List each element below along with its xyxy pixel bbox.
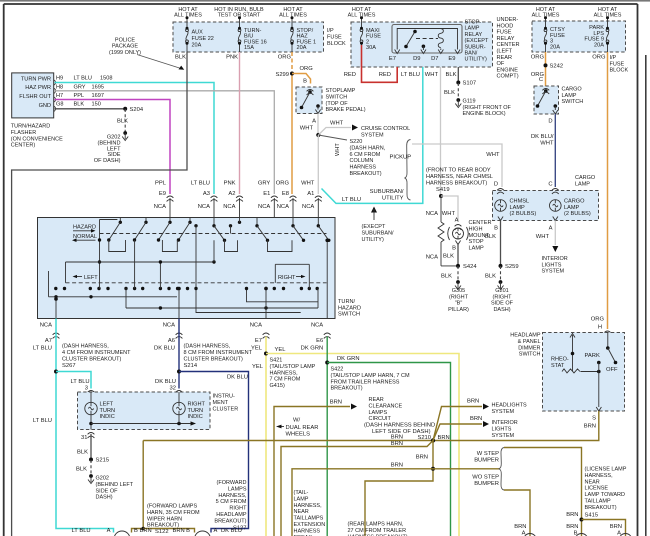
wire LT BLU relay D9 down xyxy=(322,67,423,203)
svg-text:BLK: BLK xyxy=(117,119,128,125)
svg-text:NCA: NCA xyxy=(277,204,289,210)
svg-text:PARK: PARK xyxy=(585,353,600,359)
wire WHT branch to chmsl D xyxy=(412,144,502,187)
svg-text:BRN: BRN xyxy=(330,400,342,406)
svg-text:RED: RED xyxy=(379,72,391,78)
wire DK BLU A6 to S214 to pin 32 xyxy=(178,319,180,389)
label POLICE PACKAGE xyxy=(109,38,141,56)
dimmer rheostat branch xyxy=(562,334,601,374)
svg-text:TAILLAMPS: TAILLAMPS xyxy=(294,516,324,522)
svg-text:LT BLU: LT BLU xyxy=(72,528,91,534)
svg-text:FLASHER: FLASHER xyxy=(11,130,36,136)
svg-text:BRN: BRN xyxy=(438,435,450,441)
label TURN/HAZARD SWITCH xyxy=(338,299,361,318)
svg-text:HARNESS BREAKOUT): HARNESS BREAKOUT) xyxy=(426,180,487,186)
svg-text:POLICE: POLICE xyxy=(115,38,136,44)
svg-text:HEADLIGHTS: HEADLIGHTS xyxy=(492,403,527,409)
wire WHT cargo lamp to interior lights xyxy=(552,221,558,253)
switch bus 3 xyxy=(49,271,178,298)
label INSTRUMENT CLUSTER xyxy=(213,394,239,413)
label SUBURBAN/UTILITY xyxy=(370,189,404,202)
svg-text:SYSTEM: SYSTEM xyxy=(361,132,384,138)
pin E7 (YEL) xyxy=(250,323,270,352)
label I/P FUSE BLOCK xyxy=(327,28,346,47)
svg-text:TURN: TURN xyxy=(100,408,116,414)
label BLK (pin31) xyxy=(77,450,88,456)
svg-text:NCA: NCA xyxy=(223,204,235,210)
svg-text:LICENSE: LICENSE xyxy=(585,486,609,492)
svg-text:DASH): DASH) xyxy=(493,307,510,313)
svg-text:BRN: BRN xyxy=(416,455,428,461)
label HOT AT ALL TIMES (maxi) xyxy=(348,7,376,19)
pin E8 (ORG) xyxy=(276,181,297,218)
svg-text:CENTER): CENTER) xyxy=(11,143,36,149)
svg-text:BLK: BLK xyxy=(446,72,457,78)
svg-text:S424: S424 xyxy=(463,264,477,270)
svg-text:TAILLAMP: TAILLAMP xyxy=(585,499,612,505)
label W STEP BUMPER xyxy=(474,451,499,464)
ground G202 (top) xyxy=(94,131,128,164)
svg-text:BLOCK: BLOCK xyxy=(327,41,346,47)
svg-text:150: 150 xyxy=(92,102,101,108)
pin A7 (LT BLU) xyxy=(33,323,60,352)
label BRN B (taillamp) xyxy=(566,524,578,536)
svg-text:3: 3 xyxy=(85,386,88,392)
svg-text:NCA: NCA xyxy=(311,323,323,329)
svg-text:CENTER: CENTER xyxy=(497,42,520,48)
svg-text:A: A xyxy=(549,226,553,232)
splice S267 xyxy=(54,370,58,374)
switch bus 8 xyxy=(100,220,231,234)
wire BRN S210 down to bumper line xyxy=(365,441,435,536)
svg-text:LEFT SIDE OF DASH): LEFT SIDE OF DASH) xyxy=(372,429,431,435)
pin A1 (WHT) xyxy=(301,181,322,218)
svg-text:S242: S242 xyxy=(550,64,564,70)
svg-text:(RIGHT: (RIGHT xyxy=(493,294,513,300)
svg-text:CLUSTER: CLUSTER xyxy=(213,406,239,412)
svg-text:HARNESS,: HARNESS, xyxy=(270,370,299,376)
label STOP LAMP RELAY xyxy=(465,20,489,63)
svg-text:1697: 1697 xyxy=(92,93,104,99)
stoplamp switch box xyxy=(296,87,322,114)
svg-text:STOP-: STOP- xyxy=(465,20,482,26)
svg-text:E9: E9 xyxy=(159,191,166,197)
lamp LEFT TURN INDIC xyxy=(85,392,115,420)
svg-text:(FORWARD LAMPS: (FORWARD LAMPS xyxy=(147,504,197,510)
svg-text:LAMP: LAMP xyxy=(469,246,485,252)
svg-text:CLEARANCE: CLEARANCE xyxy=(369,403,403,409)
underhood fuse/relay center box xyxy=(351,22,493,67)
svg-text:TURN/: TURN/ xyxy=(338,299,356,305)
svg-text:DK BLU/: DK BLU/ xyxy=(531,134,554,140)
label ORG (park) xyxy=(592,55,606,61)
svg-text:7 CM FROM: 7 CM FROM xyxy=(270,377,301,383)
svg-text:INDIC: INDIC xyxy=(100,414,115,420)
svg-text:BRAKE PEDAL): BRAKE PEDAL) xyxy=(326,107,366,113)
brace pickup/suburban xyxy=(405,140,411,201)
svg-text:BLOCK: BLOCK xyxy=(610,68,629,74)
svg-text:S421: S421 xyxy=(270,358,283,364)
svg-text:D: D xyxy=(494,182,498,188)
relay dashed link xyxy=(416,38,438,40)
label pin D7 xyxy=(431,56,438,62)
label BLK (relay E9) xyxy=(446,72,457,78)
label WHT vertical xyxy=(335,143,341,156)
svg-text:LT BLU: LT BLU xyxy=(191,181,210,187)
switch bus right-rect xyxy=(275,264,309,288)
label pin B (chmsl) xyxy=(494,226,498,232)
ground G305 xyxy=(448,280,469,313)
svg-text:INTERIOR: INTERIOR xyxy=(542,256,568,262)
svg-text:TURN/HAZARD: TURN/HAZARD xyxy=(11,124,50,130)
svg-text:B: B xyxy=(134,528,138,534)
svg-text:UTILITY): UTILITY) xyxy=(362,237,384,243)
svg-text:COLUMN: COLUMN xyxy=(350,158,374,164)
svg-text:A: A xyxy=(214,528,218,534)
svg-text:(LICENSE LAMP: (LICENSE LAMP xyxy=(585,467,627,473)
lamp CENTER HIGH MOUNT STOP LAMP xyxy=(448,220,492,252)
svg-text:ORG: ORG xyxy=(278,55,292,61)
svg-text:STAT: STAT xyxy=(551,363,565,369)
svg-text:PNK: PNK xyxy=(226,55,238,61)
fuse STOP/HAZ FUSE 1 20A xyxy=(291,16,317,52)
svg-text:PPL: PPL xyxy=(74,93,85,99)
svg-text:5 CM FROM: 5 CM FROM xyxy=(216,499,247,505)
label HOT AT ALL TIMES (park) xyxy=(594,7,622,19)
svg-text:LIGHTS: LIGHTS xyxy=(492,426,512,432)
svg-text:B: B xyxy=(186,528,190,534)
pin E1 (GRY) xyxy=(258,181,278,218)
wire ORG park fuse to dimmer xyxy=(607,52,609,329)
wire ORG stop/haz fuse to S299 (dashed) xyxy=(291,52,293,74)
label BRN (wire6) xyxy=(416,455,428,461)
svg-text:(EXECPT: (EXECPT xyxy=(362,224,386,230)
svg-text:LAMP: LAMP xyxy=(510,205,526,211)
svg-text:HARN, 35 CM FROM: HARN, 35 CM FROM xyxy=(147,510,200,516)
svg-text:TURN PWR: TURN PWR xyxy=(21,76,51,82)
svg-text:LAMP: LAMP xyxy=(465,26,480,32)
svg-text:(EXCEPT: (EXCEPT xyxy=(465,38,489,44)
flasher pin H9 + wire name xyxy=(56,76,112,82)
label OFF xyxy=(606,367,618,373)
svg-text:SWITCH: SWITCH xyxy=(338,312,360,318)
svg-text:INDIC: INDIC xyxy=(188,414,203,420)
chmsl exit arrow xyxy=(498,217,503,221)
svg-text:HARNESS,: HARNESS, xyxy=(218,493,247,499)
splice S415 xyxy=(580,518,584,522)
label ORG (S299) xyxy=(300,66,314,72)
wire ORG ctsy fuse to cargo switch xyxy=(545,52,547,86)
svg-text:27 CM FROM TRAILER: 27 CM FROM TRAILER xyxy=(348,528,407,534)
fuse AUX FUSE 22 20A xyxy=(186,16,214,52)
label W DUAL REAR WHEELS xyxy=(276,418,318,438)
relay box (stop lamp relay) xyxy=(392,25,462,54)
svg-text:LAMPS: LAMPS xyxy=(369,410,388,416)
switch exit A7 xyxy=(54,297,58,319)
svg-text:4 CM FROM INSTRUMENT: 4 CM FROM INSTRUMENT xyxy=(62,350,131,356)
svg-text:& PANEL: & PANEL xyxy=(518,339,541,345)
label BRN (interior) xyxy=(470,416,482,422)
svg-text:S422: S422 xyxy=(331,367,344,373)
svg-text:HEADLAMP: HEADLAMP xyxy=(216,512,247,518)
svg-text:1695: 1695 xyxy=(92,84,104,90)
lamp front right park/turn xyxy=(195,531,211,536)
connector cluster pin 3 xyxy=(88,391,95,396)
label BRN (wire5) xyxy=(391,441,403,447)
svg-text:S419: S419 xyxy=(436,187,450,193)
lamp CHMSL LAMP xyxy=(495,199,537,218)
I/P fuse block (right) xyxy=(532,21,626,52)
svg-text:WO STEP: WO STEP xyxy=(472,475,499,481)
wire LT BLU S267 to cluster pin 3 xyxy=(56,372,91,389)
svg-text:E6: E6 xyxy=(316,338,323,344)
svg-text:ENGINE BLOCK): ENGINE BLOCK) xyxy=(463,111,506,117)
svg-text:S220: S220 xyxy=(350,139,363,145)
svg-text:BUMPER: BUMPER xyxy=(474,458,499,464)
label WHT (cargo lamp) xyxy=(536,234,550,240)
svg-text:SUBURBAN/: SUBURBAN/ xyxy=(370,189,404,195)
label pin S xyxy=(592,416,596,422)
svg-text:RED: RED xyxy=(344,72,356,78)
lamp rear/license 3 xyxy=(619,534,632,536)
wire BLK pin31 to S215 xyxy=(90,434,92,460)
svg-text:LIGHTS: LIGHTS xyxy=(542,262,562,268)
label BLK (S107) xyxy=(444,90,455,96)
label pin B (stoplamp sw) xyxy=(303,79,307,85)
svg-text:LAMP: LAMP xyxy=(562,93,577,99)
label RED (maxi) xyxy=(344,72,356,78)
svg-text:LAMP: LAMP xyxy=(564,205,580,211)
label NCA (lower) xyxy=(426,255,438,261)
label BRN A (wo-step) xyxy=(514,524,526,536)
wire BRN front park lamps xyxy=(132,441,195,533)
svg-text:NCA: NCA xyxy=(40,323,52,329)
svg-text:20A: 20A xyxy=(297,45,307,51)
svg-text:BLK: BLK xyxy=(443,254,454,260)
label HOT AT ALL TIMES (stop/haz) xyxy=(279,7,307,19)
label dash harness behind note xyxy=(364,423,435,436)
svg-text:E9: E9 xyxy=(448,56,455,62)
svg-text:20A: 20A xyxy=(594,42,604,48)
connector center lamp A xyxy=(455,225,462,230)
label WHT (chmsl A) xyxy=(442,211,456,217)
svg-text:OF DASH): OF DASH) xyxy=(94,158,121,164)
wire BRN rear clearance xyxy=(274,404,357,536)
svg-text:BLK: BLK xyxy=(175,55,186,61)
flasher pin names xyxy=(19,76,51,109)
dashed hazard row xyxy=(100,233,327,235)
label HOT AT ALL TIMES (aux) xyxy=(174,7,202,19)
dimmer blade xyxy=(606,333,617,365)
fuse CTSY FUSE 3 20A xyxy=(544,16,565,52)
label CARGO LAMP (box) xyxy=(575,175,596,187)
label PARK xyxy=(585,353,600,359)
pin E9 (PPL) xyxy=(154,181,174,218)
svg-text:BRN: BRN xyxy=(391,441,403,447)
svg-text:CHMSL: CHMSL xyxy=(510,199,530,205)
label pin A (lamp2) xyxy=(214,528,242,534)
svg-text:(DASH HARN,: (DASH HARN, xyxy=(350,145,386,151)
svg-text:BRN: BRN xyxy=(391,463,403,469)
switch bus 5 xyxy=(194,226,300,313)
label pin 3 xyxy=(85,386,88,392)
svg-text:UTILITY): UTILITY) xyxy=(465,57,487,63)
label UNDERHOOD FUSE RELAY CENTER xyxy=(497,17,520,80)
label ORG (ctsy) xyxy=(531,55,545,61)
label HOT AT ALL TIMES (ctsy) xyxy=(532,7,560,19)
svg-text:C: C xyxy=(539,77,543,83)
svg-text:G201: G201 xyxy=(495,288,508,294)
switch bus 7 xyxy=(135,240,162,289)
svg-text:REAR: REAR xyxy=(497,55,513,61)
svg-text:(FRONT TO REAR BODY: (FRONT TO REAR BODY xyxy=(426,168,491,174)
wire GRY flasher to E1 xyxy=(55,91,275,194)
svg-text:SYSTEM: SYSTEM xyxy=(542,269,565,275)
svg-text:REAR: REAR xyxy=(369,397,384,403)
svg-text:(LEFT: (LEFT xyxy=(497,49,513,55)
label forward lamps harness note xyxy=(214,480,247,532)
svg-text:COMPT): COMPT) xyxy=(497,74,519,80)
headlamp dimmer switch box xyxy=(543,333,625,412)
svg-text:ORG: ORG xyxy=(276,181,290,187)
svg-text:BRN: BRN xyxy=(140,528,152,534)
svg-text:FUSE 22: FUSE 22 xyxy=(192,36,214,42)
switch exit A6 xyxy=(177,287,181,319)
svg-text:E7: E7 xyxy=(389,56,396,62)
switch hazard blades xyxy=(107,218,330,243)
switch bus 1 xyxy=(98,220,101,289)
svg-text:BREAKOUT): BREAKOUT) xyxy=(585,505,617,511)
svg-text:(DASH HARNESS BEHIND: (DASH HARNESS BEHIND xyxy=(364,423,435,429)
svg-text:NCA: NCA xyxy=(163,323,175,329)
svg-text:S299: S299 xyxy=(275,72,289,78)
svg-text:H7: H7 xyxy=(56,93,63,99)
ground G119 xyxy=(455,98,511,117)
svg-text:20A: 20A xyxy=(550,44,560,50)
wire PNK turn-b/u fuse to A2 xyxy=(239,52,241,194)
wire BRN S415 branch right xyxy=(582,520,626,536)
svg-text:E8: E8 xyxy=(282,191,289,197)
svg-text:DIMMER: DIMMER xyxy=(518,345,540,351)
label pin C (cargo sw) xyxy=(539,77,543,83)
connector chmsl D xyxy=(497,189,504,194)
svg-text:BREAKOUT): BREAKOUT) xyxy=(214,518,246,524)
svg-text:YEL: YEL xyxy=(275,347,287,353)
svg-text:DK BLU: DK BLU xyxy=(154,346,175,352)
svg-text:LEFT: LEFT xyxy=(100,402,114,408)
svg-text:NCA: NCA xyxy=(426,255,438,261)
svg-text:SIDE OF: SIDE OF xyxy=(491,301,514,307)
switch contact dots row xyxy=(54,287,319,290)
svg-text:EXTENSION: EXTENSION xyxy=(294,522,326,528)
svg-text:PACKAGE: PACKAGE xyxy=(112,44,139,50)
svg-text:S: S xyxy=(592,416,596,422)
svg-text:NCA: NCA xyxy=(258,204,270,210)
cargo exit arrow xyxy=(553,217,558,221)
label BRN (left of S210) xyxy=(391,435,403,441)
svg-text:BLK: BLK xyxy=(444,90,455,96)
wire NCA to S424 xyxy=(441,265,458,267)
svg-text:B: B xyxy=(303,79,307,85)
svg-text:LT BLU: LT BLU xyxy=(74,76,92,82)
flasher pin G8 + wire name xyxy=(56,102,101,108)
label RHEO-STAT xyxy=(551,357,569,369)
svg-text:15A: 15A xyxy=(244,45,254,51)
svg-text:S267: S267 xyxy=(62,363,76,369)
label PICKUP xyxy=(390,155,412,161)
svg-text:(TAIL-: (TAIL- xyxy=(294,490,309,496)
wire BLK S204 to G202 (dashed) xyxy=(124,109,126,132)
label rear lamps harn note xyxy=(348,522,408,536)
svg-text:WHEELS: WHEELS xyxy=(286,432,311,438)
label HOT IN RUN (turn-b/u) xyxy=(214,7,264,19)
label REAR CLEARANCE LAMPS CIRCUIT xyxy=(369,397,403,422)
svg-text:RIGHT: RIGHT xyxy=(278,275,296,281)
svg-text:PILLAR): PILLAR) xyxy=(448,307,469,313)
svg-text:(2 BULBS): (2 BULBS) xyxy=(510,211,537,217)
label BLK (chmsl) xyxy=(485,234,496,240)
svg-text:CARGO: CARGO xyxy=(562,87,583,93)
label HEADLIGHTS SYSTEM xyxy=(492,403,527,415)
label BRN (dimmer) xyxy=(584,424,596,430)
svg-text:LT BLU: LT BLU xyxy=(401,72,420,78)
svg-text:LT BLU: LT BLU xyxy=(33,346,52,352)
svg-text:(REAR LAMPS HARN,: (REAR LAMPS HARN, xyxy=(348,522,404,528)
svg-text:B: B xyxy=(494,226,498,232)
svg-text:WHT: WHT xyxy=(300,126,314,132)
label S422 note xyxy=(331,367,410,392)
svg-text:H: H xyxy=(598,325,602,331)
wire WHT relay D7 to S419 xyxy=(440,67,442,196)
svg-text:INTERIOR: INTERIOR xyxy=(492,420,518,426)
wire DK BLU/WHT cargo switch to cargo lamp xyxy=(554,114,556,187)
svg-text:PICKUP: PICKUP xyxy=(390,155,412,161)
svg-text:LT BLU: LT BLU xyxy=(342,197,361,203)
pin A2 (PNK) xyxy=(223,181,243,218)
label DK BLU (pin32) xyxy=(155,379,176,385)
relay contact stub D9 xyxy=(422,45,426,51)
svg-text:SWITCH: SWITCH xyxy=(326,94,348,100)
svg-text:FUSE: FUSE xyxy=(610,61,625,67)
svg-text:GND: GND xyxy=(39,103,51,109)
label BLK (S424) xyxy=(441,274,452,280)
wire WHT junction to A1 xyxy=(317,135,319,194)
label BLK (center lamp) xyxy=(443,254,454,260)
svg-text:SYSTEM: SYSTEM xyxy=(492,433,515,439)
junction S220 xyxy=(316,133,320,137)
svg-text:LT BLU: LT BLU xyxy=(71,379,90,385)
wire BRN dimmer S to S210 xyxy=(143,411,599,441)
label pin A (center lamp) xyxy=(455,218,459,224)
svg-text:NEAR: NEAR xyxy=(294,509,309,515)
svg-text:FROM TRAILER HARNESS: FROM TRAILER HARNESS xyxy=(331,379,400,385)
svg-text:LAMP TOWARD: LAMP TOWARD xyxy=(585,492,625,498)
wire BLK chmsl to S259 xyxy=(500,221,502,266)
label BLK (S259) xyxy=(485,274,496,280)
connector cluster pin 31 xyxy=(88,433,95,438)
svg-text:DK BLU: DK BLU xyxy=(227,375,248,381)
label STOPLAMP SWITCH xyxy=(326,88,366,113)
label DK BLU (branch) xyxy=(227,375,248,381)
splice S215 xyxy=(89,458,109,464)
svg-text:OFF: OFF xyxy=(606,367,618,373)
switch bus 4 xyxy=(126,289,318,310)
label tail-lamp harness note xyxy=(294,490,326,536)
svg-text:BUMPER: BUMPER xyxy=(474,481,499,487)
svg-text:LEFT: LEFT xyxy=(84,275,98,281)
svg-text:NORMAL: NORMAL xyxy=(73,234,97,240)
wire DK GRN E6 down xyxy=(326,337,328,536)
